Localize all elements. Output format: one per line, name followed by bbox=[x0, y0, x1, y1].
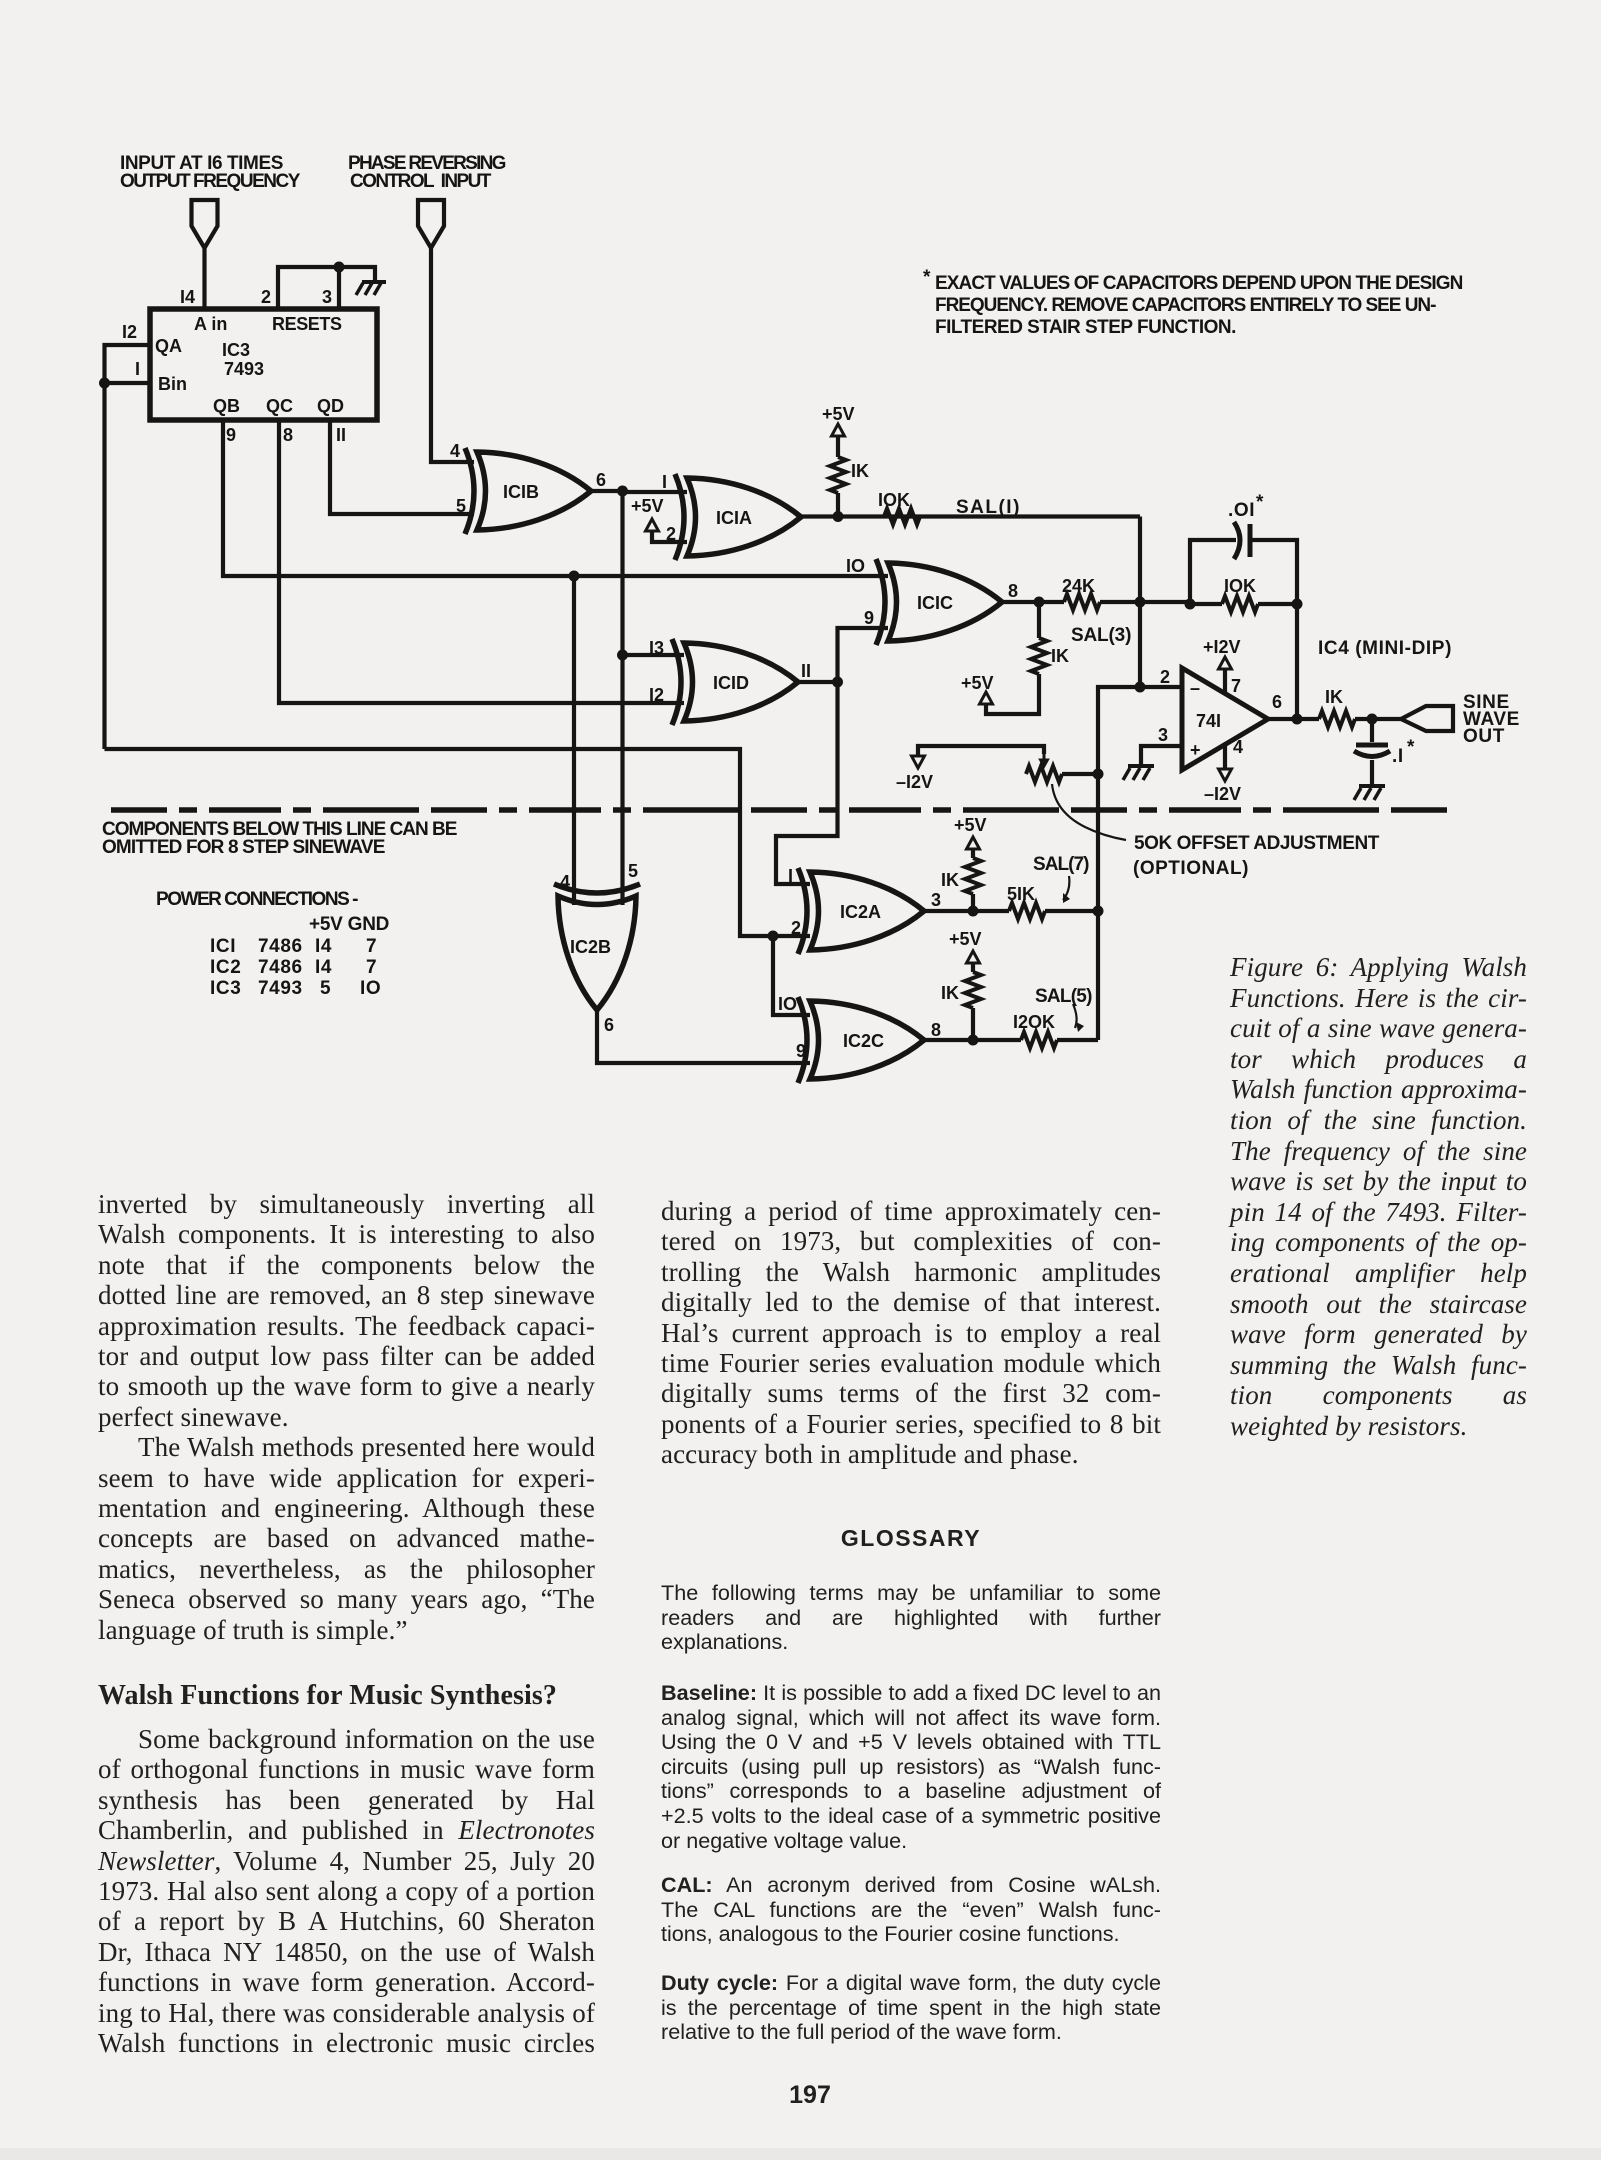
XOR gate IC2A bbox=[798, 868, 924, 954]
svg-text:7493: 7493 bbox=[224, 359, 264, 379]
wire pot node down to SAL(5) line bbox=[1096, 774, 1100, 1040]
svg-text:IO: IO bbox=[778, 994, 797, 1014]
capacitor C2 .1 output filter bbox=[1354, 719, 1415, 786]
wire QA line to IC2A/IC2C inputs bbox=[105, 749, 811, 1015]
feedback capacitor C1 .01 bbox=[1190, 492, 1297, 604]
svg-text:CONTROL INPUT: CONTROL INPUT bbox=[350, 171, 492, 192]
svg-text:Bin: Bin bbox=[158, 374, 187, 394]
note exact values of capacitors bbox=[923, 267, 1464, 338]
svg-text:IK: IK bbox=[941, 983, 959, 1003]
XOR gate IC1B bbox=[465, 448, 591, 534]
svg-text:IK: IK bbox=[851, 461, 869, 481]
svg-text:3: 3 bbox=[1158, 725, 1168, 745]
resistor R6 1K output bbox=[1319, 687, 1401, 727]
svg-text:IOK: IOK bbox=[1224, 576, 1256, 596]
svg-text:II: II bbox=[336, 425, 346, 445]
svg-text:ICIA: ICIA bbox=[716, 508, 752, 528]
pin 2 label op-amp bbox=[1160, 667, 1170, 687]
wire op-amp output bbox=[1268, 717, 1319, 721]
net label SAL(5) with arrow bbox=[1035, 986, 1093, 1032]
svg-text:.OI: .OI bbox=[1228, 500, 1255, 521]
pin 11 label IC1D bbox=[801, 661, 811, 681]
svg-text:+5V: +5V bbox=[822, 404, 855, 424]
wire J1 to IC3 pin 14 bbox=[202, 248, 206, 309]
svg-text:I: I bbox=[788, 866, 793, 886]
svg-text:5: 5 bbox=[456, 496, 466, 516]
XOR gate IC1C bbox=[876, 559, 1002, 645]
node IC1B output junction bbox=[617, 486, 628, 497]
svg-text:IK: IK bbox=[941, 870, 959, 890]
svg-text:*: * bbox=[1256, 492, 1264, 513]
ground at IC3 resets bbox=[356, 282, 386, 295]
node feedback left junction bbox=[1185, 599, 1196, 610]
pin 4 label IC2B bbox=[560, 872, 570, 892]
pin 9 label IC2C bbox=[796, 1041, 806, 1061]
wire QB pin 9 down and right to IC1C pin 10 bbox=[223, 420, 888, 576]
svg-text:5: 5 bbox=[628, 861, 638, 881]
svg-text:ICI: ICI bbox=[210, 936, 236, 957]
power -12V at op-amp pin 4 bbox=[1204, 737, 1243, 804]
svg-text:+I2V: +I2V bbox=[1203, 637, 1241, 657]
pin 4 label IC1B bbox=[450, 441, 460, 461]
svg-text:IC4 (MINI-DIP): IC4 (MINI-DIP) bbox=[1318, 638, 1452, 659]
wire IC2A pin 2 stub bbox=[773, 934, 810, 938]
wire J2 to IC1B pin 4 bbox=[431, 248, 474, 462]
node SAL(7) junction bbox=[1093, 906, 1104, 917]
wire IC1D output to junction bbox=[798, 680, 838, 684]
svg-text:SAL(3): SAL(3) bbox=[1071, 625, 1132, 646]
svg-text:(OPTIONAL): (OPTIONAL) bbox=[1133, 858, 1249, 879]
svg-text:IC3: IC3 bbox=[222, 340, 250, 360]
svg-text:QD: QD bbox=[317, 396, 344, 416]
wire QB branch down to IC2B pin 4 bbox=[572, 576, 576, 905]
pin 10 label IC2C bbox=[778, 994, 797, 1014]
wire summing node to op-amp pin 2 bbox=[1140, 685, 1182, 689]
svg-text:ICIC: ICIC bbox=[917, 593, 953, 613]
svg-text:FILTERED STAIR STEP FUNCTION.: FILTERED STAIR STEP FUNCTION. bbox=[935, 317, 1237, 338]
pin 14 label bbox=[180, 287, 195, 307]
svg-text:IC2C: IC2C bbox=[843, 1031, 884, 1051]
pin 1 label IC1A bbox=[662, 472, 667, 492]
pin 3 label bbox=[322, 287, 332, 307]
svg-text:ICIB: ICIB bbox=[503, 482, 539, 502]
wire QA pin 12 to Bin pin 1 and down bbox=[105, 345, 151, 749]
power -12V supply for offset pot bbox=[896, 746, 1044, 792]
node Bin junction bbox=[99, 378, 110, 389]
pin 5 label IC2B bbox=[628, 861, 638, 881]
label power connections table bbox=[156, 889, 390, 999]
pin 12 label bbox=[122, 322, 137, 342]
svg-text:OUT: OUT bbox=[1463, 726, 1505, 747]
ground at op-amp pin 3 bbox=[1123, 766, 1154, 780]
XOR gate IC1A bbox=[675, 474, 801, 560]
svg-text:8: 8 bbox=[283, 425, 293, 445]
pin 13 label IC1D bbox=[649, 638, 664, 658]
pin 8 label bbox=[283, 425, 293, 445]
pin 3 label op-amp bbox=[1158, 725, 1168, 745]
svg-text:74I: 74I bbox=[1196, 711, 1221, 731]
svg-text:I: I bbox=[662, 472, 667, 492]
node IC1A output junction bbox=[833, 511, 844, 522]
wire IC1C pin 9 from IC1D output node bbox=[838, 628, 889, 682]
svg-text:3: 3 bbox=[931, 890, 941, 910]
node output cap junction bbox=[1367, 714, 1378, 725]
svg-text:IK: IK bbox=[1051, 646, 1069, 666]
svg-text:I2: I2 bbox=[649, 685, 664, 705]
svg-text:7486: 7486 bbox=[258, 957, 303, 978]
svg-text:I4: I4 bbox=[180, 287, 195, 307]
svg-text:+5V: +5V bbox=[954, 815, 987, 835]
connector J2 phase reversing control input bbox=[418, 200, 444, 248]
input label PHASE REVERSING CONTROL INPUT bbox=[348, 153, 507, 192]
pin 9 label IC1C bbox=[864, 608, 874, 628]
svg-text:5IK: 5IK bbox=[1007, 884, 1035, 904]
node feedback right junction bbox=[1292, 599, 1303, 610]
svg-text:24K: 24K bbox=[1062, 576, 1095, 596]
svg-text:IO: IO bbox=[846, 556, 865, 576]
svg-text:7: 7 bbox=[1231, 676, 1241, 696]
power +5V above 1K pullup R1 bbox=[822, 404, 855, 436]
resistor R10 1K pullup IC2C bbox=[941, 963, 981, 1040]
svg-text:I4: I4 bbox=[315, 936, 332, 957]
pin 8 label IC2C bbox=[931, 1020, 941, 1040]
svg-text:4: 4 bbox=[1233, 737, 1243, 757]
svg-text:*: * bbox=[923, 267, 931, 288]
svg-text:SAL(7): SAL(7) bbox=[1033, 854, 1090, 875]
label components below this line bbox=[102, 819, 458, 858]
svg-text:9: 9 bbox=[864, 608, 874, 628]
node QB branch junction bbox=[569, 571, 580, 582]
svg-text:7493: 7493 bbox=[258, 978, 303, 999]
pin 6 label IC2B bbox=[604, 1015, 614, 1035]
svg-text:SAL(I): SAL(I) bbox=[956, 497, 1020, 518]
net label SAL(7) with arrow bbox=[1033, 854, 1090, 903]
svg-text:II: II bbox=[801, 661, 811, 681]
power +I2V at op-amp pin 7 bbox=[1203, 637, 1241, 696]
connector J1 input at 16 times output frequency bbox=[192, 200, 218, 248]
node summing 24K junction bbox=[1135, 597, 1146, 608]
svg-text:5: 5 bbox=[320, 978, 331, 999]
wire reset pins 2,3 loop bbox=[278, 267, 375, 309]
wire QC pin 8 down and right to IC1D pin 12 bbox=[279, 420, 684, 703]
svg-text:QB: QB bbox=[213, 396, 240, 416]
svg-text:9: 9 bbox=[796, 1041, 806, 1061]
pin 1 label bbox=[135, 359, 140, 379]
dashed separator line bbox=[111, 807, 1447, 813]
svg-text:8: 8 bbox=[931, 1020, 941, 1040]
resistor R8 1K pullup IC2A bbox=[941, 849, 981, 911]
power +5V arrow for R4 bbox=[961, 673, 994, 704]
svg-text:2: 2 bbox=[666, 524, 676, 544]
svg-text:9: 9 bbox=[226, 425, 236, 445]
node output feedback junction bbox=[1292, 714, 1303, 725]
svg-text:I4: I4 bbox=[315, 957, 332, 978]
pin 6 label IC1B bbox=[596, 470, 606, 490]
svg-text:7: 7 bbox=[366, 936, 377, 957]
XOR gate IC1D bbox=[672, 639, 798, 725]
svg-text:I3: I3 bbox=[649, 638, 664, 658]
svg-text:IC3: IC3 bbox=[210, 978, 241, 999]
svg-text:2: 2 bbox=[791, 918, 801, 938]
label IC4 (MINI-DIP) bbox=[1318, 638, 1452, 659]
svg-text:2: 2 bbox=[1160, 667, 1170, 687]
XOR gate IC2B vertical bbox=[554, 884, 640, 1010]
svg-text:5OK OFFSET ADJUSTMENT: 5OK OFFSET ADJUSTMENT bbox=[1134, 833, 1380, 854]
pin 5 label IC1B bbox=[456, 496, 466, 516]
svg-text:+5V GND: +5V GND bbox=[309, 914, 390, 935]
resistor R9 51K SAL(7) bbox=[1007, 884, 1098, 919]
IC3 7493 counter bbox=[150, 309, 377, 420]
svg-text:+: + bbox=[1190, 740, 1201, 760]
pin 2 label bbox=[261, 287, 271, 307]
svg-text:–I2V: –I2V bbox=[1204, 784, 1241, 804]
wire 24K to summing node and feedback bbox=[1100, 602, 1222, 687]
leader line 50K offset adjustment bbox=[1052, 784, 1126, 840]
pin 10 label IC1C bbox=[846, 556, 865, 576]
svg-text:.I: .I bbox=[1392, 746, 1404, 767]
svg-text:EXACT VALUES OF CAPACITORS DEP: EXACT VALUES OF CAPACITORS DEPEND UPON T… bbox=[935, 273, 1464, 294]
svg-text:4: 4 bbox=[450, 441, 460, 461]
node inverting input junction bbox=[1135, 682, 1146, 693]
svg-text:A in: A in bbox=[194, 314, 227, 334]
pin 9 label bbox=[226, 425, 236, 445]
resistor R4 1K to +5V below IC1C output bbox=[986, 602, 1069, 714]
svg-text:2: 2 bbox=[261, 287, 271, 307]
svg-text:QA: QA bbox=[155, 336, 182, 356]
svg-text:3: 3 bbox=[322, 287, 332, 307]
resistor R11 120K SAL(5) bbox=[1013, 1012, 1098, 1048]
label 50K OFFSET ADJUSTMENT (OPTIONAL) bbox=[1133, 833, 1380, 879]
svg-text:IC2A: IC2A bbox=[840, 902, 881, 922]
svg-text:I2: I2 bbox=[122, 322, 137, 342]
power +5V above R8 bbox=[954, 815, 987, 849]
node IC2C output junction bbox=[968, 1035, 979, 1046]
svg-text:I: I bbox=[135, 359, 140, 379]
resistor R3 24K bbox=[1062, 576, 1100, 610]
svg-text:+5V: +5V bbox=[631, 496, 664, 516]
resistor R5 10K feedback bbox=[1222, 576, 1297, 612]
net label SAL(I) bbox=[956, 497, 1020, 518]
wire QD pin 11 down and right to IC1B pin 5 bbox=[330, 420, 474, 514]
node pot junction bbox=[1093, 769, 1104, 780]
svg-text:POWER CONNECTIONS -: POWER CONNECTIONS - bbox=[156, 889, 359, 910]
svg-text:RESETS: RESETS bbox=[272, 314, 342, 334]
svg-text:6: 6 bbox=[596, 470, 606, 490]
pin 8 label IC1C bbox=[1008, 581, 1018, 601]
pin 1 label IC2A bbox=[788, 866, 793, 886]
wire IC1C output bbox=[1002, 600, 1064, 604]
op-amp U1 741 bbox=[1182, 668, 1268, 770]
svg-text:4: 4 bbox=[560, 872, 570, 892]
wire IC1D node down to IC2A pin 1 bbox=[776, 682, 838, 884]
wire IC2A output bbox=[924, 909, 1009, 913]
wire IC2B output to IC2C pin 9 bbox=[597, 1008, 810, 1063]
wire IC2C output bbox=[924, 1038, 1021, 1042]
svg-text:*: * bbox=[1407, 737, 1415, 758]
svg-text:ICID: ICID bbox=[713, 673, 749, 693]
svg-text:I2OK: I2OK bbox=[1013, 1012, 1055, 1032]
svg-text:FREQUENCY. REMOVE CAPACITORS E: FREQUENCY. REMOVE CAPACITORS ENTIRELY TO… bbox=[935, 295, 1437, 316]
pin 3 label IC2A bbox=[931, 890, 941, 910]
input label INPUT AT I6 TIMES OUTPUT FREQUENCY bbox=[120, 153, 301, 192]
pin 11 label bbox=[336, 425, 346, 445]
svg-text:IC2B: IC2B bbox=[570, 937, 611, 957]
node IC1C output junction bbox=[1034, 597, 1045, 608]
svg-text:7486: 7486 bbox=[258, 936, 303, 957]
XOR gate IC2C bbox=[798, 997, 924, 1083]
potentiometer R7 50K offset bbox=[1026, 752, 1098, 782]
node IC2A pin2 junction bbox=[768, 931, 779, 942]
node branch to IC1D pin 13 bbox=[617, 650, 628, 661]
node IC2A output junction bbox=[968, 906, 979, 917]
ground below C2 bbox=[1354, 786, 1385, 800]
resistor R2 10K series SAL(I) bbox=[878, 490, 920, 525]
svg-text:IC2: IC2 bbox=[210, 957, 241, 978]
svg-text:QC: QC bbox=[266, 396, 293, 416]
wire IC1A output bbox=[801, 514, 1140, 518]
svg-text:7: 7 bbox=[366, 957, 377, 978]
svg-text:–I2V: –I2V bbox=[896, 772, 933, 792]
svg-text:–: – bbox=[1190, 678, 1200, 698]
wire SAL(I) down to summing node bbox=[1138, 517, 1142, 605]
wire ground to op-amp pin 3 bbox=[1141, 746, 1182, 765]
svg-text:IOK: IOK bbox=[878, 490, 910, 510]
pin 12 label IC1D bbox=[649, 685, 664, 705]
svg-text:+5V: +5V bbox=[961, 673, 994, 693]
svg-text:SAL(5): SAL(5) bbox=[1035, 986, 1093, 1007]
svg-text:OMITTED FOR 8 STEP SINEWAVE: OMITTED FOR 8 STEP SINEWAVE bbox=[102, 837, 386, 858]
power +5V at IC1A pin 2 bbox=[631, 496, 687, 542]
pin 2 label IC1A bbox=[666, 524, 676, 544]
svg-text:6: 6 bbox=[604, 1015, 614, 1035]
wire pot node up to summing node bbox=[1098, 687, 1140, 774]
wire IC1B output down to IC2B pin 5 bbox=[620, 491, 624, 905]
wire branch to IC1D pin 13 bbox=[623, 653, 685, 657]
svg-text:IK: IK bbox=[1325, 687, 1343, 707]
connector J3 sine wave out bbox=[1401, 706, 1453, 731]
output label SINE WAVE OUT bbox=[1463, 692, 1520, 747]
net label SAL(3) bbox=[1071, 625, 1132, 646]
wire IC1B output to IC1A pin 1 bbox=[591, 491, 687, 492]
svg-text:+5V: +5V bbox=[949, 929, 982, 949]
svg-text:6: 6 bbox=[1272, 692, 1282, 712]
node reset junction bbox=[334, 262, 345, 273]
pin 6 label op-amp bbox=[1272, 692, 1282, 712]
svg-text:IO: IO bbox=[360, 978, 381, 999]
resistor R1 1K pullup on IC1A output bbox=[830, 436, 869, 516]
power +5V above R10 bbox=[949, 929, 982, 963]
svg-text:8: 8 bbox=[1008, 581, 1018, 601]
node IC1D output junction bbox=[832, 677, 843, 688]
wire feedback right down to output node bbox=[1295, 604, 1299, 719]
svg-text:OUTPUT FREQUENCY: OUTPUT FREQUENCY bbox=[120, 171, 301, 192]
pin 2 label IC2A bbox=[791, 918, 801, 938]
